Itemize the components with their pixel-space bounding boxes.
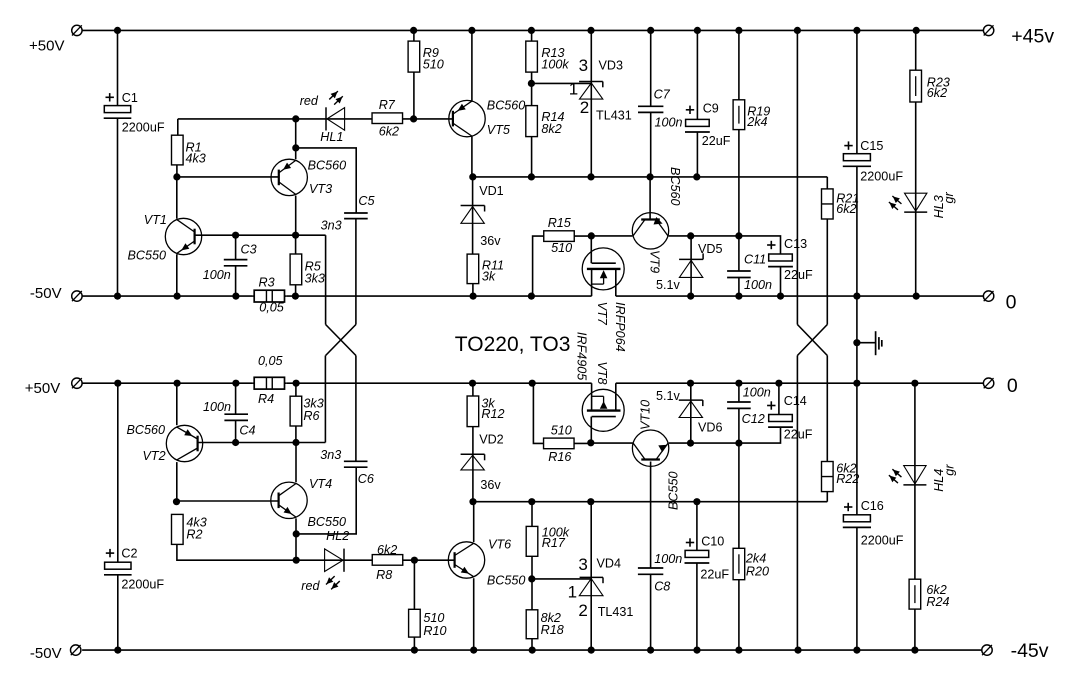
wire VT4 emitter [295,518,297,560]
svg-text:-45v: -45v [1011,640,1049,662]
junction R15 source rail [528,293,535,300]
transistor VT4 (BC550) [271,482,307,518]
capacitor C6 [344,461,368,467]
resistor R18 [526,610,538,639]
svg-text:red: red [300,94,319,108]
zener VD2 (36v) [461,454,485,470]
junction crossover column top rail [794,27,801,34]
resistor R15 [544,231,575,242]
transistor VT9 (BC560) [632,213,668,249]
wire VT10 collector to gate node [591,442,632,444]
junction C7 top [647,27,654,34]
junction VD4 pin2 rail [588,647,595,654]
zener VD6 (5.1v) [679,400,703,417]
svg-text:-50V: -50V [30,645,62,662]
svg-text:100n: 100n [743,386,771,400]
resistor R24 [909,579,921,609]
junction R16 source rail [529,380,536,387]
wire R12 column [472,383,474,502]
wire VT5 collector [471,136,473,177]
wire gate line (top half) [473,176,828,178]
svg-text:BC550: BC550 [308,515,347,529]
wire R11 to rail [472,284,474,297]
svg-text:+50V: +50V [25,380,60,397]
junction VT2 collector/R2 [173,498,180,505]
wire VD1 column [472,177,474,254]
svg-text:5.1v: 5.1v [656,389,681,403]
svg-text:3: 3 [579,56,588,75]
resistor R11 [467,254,479,284]
MOSFET VT8 (IRF4905) [582,383,624,431]
junction VD5 bottom [687,293,694,300]
wire left crossover to VT2 base node [324,356,326,443]
svg-text:VT9: VT9 [647,250,661,273]
wire R13 column [531,30,533,83]
svg-text:R15: R15 [548,216,572,230]
svg-text:2200uF: 2200uF [121,578,164,592]
TL431 VD4 [532,502,603,650]
junction R20 bottom [735,647,742,654]
terminal 0 (top half) [983,291,993,301]
junction VT6 collector gate line [469,498,476,505]
wire -50V / 0 rail (top half) [82,295,983,297]
svg-text:BC550: BC550 [667,471,681,510]
junction C16 bottom [853,647,860,654]
junction R13 top [528,27,535,34]
svg-text:C9: C9 [703,101,719,115]
junction C5 tap [292,144,299,151]
capacitor C14 [768,415,793,428]
resistor R19 [733,100,745,130]
junction C11 top [735,232,742,239]
svg-text:6k2: 6k2 [377,543,397,557]
resistor R21 [822,189,834,219]
junction 0 rail bottom half [853,380,860,387]
svg-text:6k2: 6k2 [927,86,947,100]
wire -50V / -45v bottom rail [82,649,982,651]
resistor R20 [733,548,745,579]
junction VT3 collector node [292,232,299,239]
junction ground tap [853,339,860,346]
svg-text:6k2: 6k2 [379,124,399,138]
resistor R13 [526,41,538,72]
wire VT10 emitter to VD6 [669,442,691,444]
junction VT8 gate node [587,439,594,446]
svg-text:2: 2 [580,98,589,117]
svg-text:IRF4905: IRF4905 [575,332,589,381]
transistor VT2 (BC560) [166,425,202,461]
wire C7 column [650,30,652,177]
junction R5 bottom [292,293,299,300]
wire VT3 collector [295,196,297,236]
svg-text:R3: R3 [259,276,275,290]
wire R16 left leg [533,383,543,443]
svg-text:R4: R4 [258,392,274,406]
svg-text:100n: 100n [203,268,231,282]
resistor R22 [822,462,834,492]
junction VD6 top [687,380,694,387]
svg-text:R17: R17 [542,536,566,550]
svg-text:0,05: 0,05 [259,301,285,315]
crossover X right [797,325,827,356]
junction VT4 collector node [292,439,299,446]
junction R6 top [293,380,300,387]
wire R1 column [176,119,179,177]
svg-text:3n3: 3n3 [321,218,342,232]
svg-text:2200uF: 2200uF [122,121,165,135]
junction C1 top rail [114,27,121,34]
svg-text:100n: 100n [203,400,231,414]
svg-text:+45v: +45v [1011,25,1054,47]
svg-text:510: 510 [551,241,572,255]
junction C14 top [775,380,782,387]
wire R20 column [738,443,740,650]
svg-text:R12: R12 [481,407,504,421]
resistor R9 [408,41,420,72]
svg-text:3n3: 3n3 [320,448,341,462]
wire HL1 drive line y119 [178,118,372,120]
wire +50V / 0 rail (bottom half) [82,382,983,384]
svg-text:TL431: TL431 [596,108,632,122]
junction HL2 anode node [293,557,300,564]
svg-text:36v: 36v [480,478,501,492]
junction R19 top [735,27,742,34]
wire R2 bottom corner [177,544,373,560]
junction C9 top [694,27,701,34]
junction C6 tap [293,530,300,537]
resistor R17 [526,526,538,556]
svg-text:BC560: BC560 [487,98,526,112]
terminal +50V (left, bottom half) [72,378,82,388]
svg-text:R22: R22 [836,472,859,486]
wire R16 to gate node [574,442,591,444]
wire VT9 collector to gate node [591,235,632,237]
junction C10 bottom [693,647,700,654]
svg-text:HL1: HL1 [320,130,343,144]
svg-text:VT7: VT7 [595,302,609,326]
capacitor C9 [685,119,710,132]
capacitor C11 [727,271,751,278]
wire VD5 column [690,236,692,296]
svg-text:VT3: VT3 [309,182,332,196]
wire VT7 gate [590,236,592,263]
resistor R10 [409,609,421,637]
junction R11 rail [470,293,477,300]
svg-text:510: 510 [551,424,572,438]
svg-text:510: 510 [423,57,444,71]
TL431 VD3 [531,30,602,177]
junction C3 bottom [232,293,239,300]
capacitor C3 [224,260,248,266]
wire R2 column top / VT2 collector [176,462,178,502]
LED HL1 (red) [326,107,345,130]
svg-text:C16: C16 [861,499,884,513]
junction HL3 bottom [913,293,920,300]
svg-text:C6: C6 [358,472,374,486]
junction VT5 collector gate line [469,173,476,180]
capacitor C2 [104,562,132,575]
wire VT4 base link [177,500,279,502]
junction VT2 emitter rail [174,380,181,387]
junction VD3 pin3 rail [587,27,594,34]
wire C11 column [738,236,740,296]
wire C13 to rail [780,267,782,297]
wire R6 column [295,383,297,442]
terminal +45v [983,25,993,35]
junction C4 bottom [232,439,239,446]
wire VD6 column [690,383,692,443]
svg-text:-50V: -50V [30,285,62,302]
terminal 0 (bottom half) [983,378,993,388]
HL2 emission arrows [326,576,340,589]
wire C10 column [696,502,698,650]
capacitor C16 [843,515,871,528]
wire VT1 collector [176,177,178,219]
svg-text:R7: R7 [379,98,396,112]
svg-text:VT10: VT10 [639,400,653,430]
wire R22 bottom corner [826,492,828,502]
wire C4 column [235,383,237,442]
wire R5 column [295,235,297,296]
wire R15 to gate node [574,235,591,237]
wire C15 column [856,30,858,383]
junction C12 bottom [735,440,742,447]
wire crossover left column (from VT3 node) [325,235,327,324]
junction C7/VT9 base [647,173,654,180]
svg-text:36v: 36v [480,234,501,248]
svg-text:VT5: VT5 [487,123,511,137]
svg-text:C5: C5 [358,194,375,208]
wire VT2 emitter [176,383,178,425]
resistor R4 (shunt 0,05) [252,377,287,389]
label VD4 pins [568,555,588,620]
crossover X left [326,325,356,356]
junction R14 gate line [528,173,535,180]
HL4 emission arrows [889,469,902,483]
capacitor C4 [224,414,248,420]
wire C8 column [650,502,652,650]
wire C6 to crossover [355,356,357,462]
wire right crossover to bottom rail [796,356,798,651]
wire C5 link [296,148,356,213]
capacitor C15 [843,154,871,167]
svg-text:22uF: 22uF [784,268,813,282]
junction C15 top [853,27,860,34]
junction VD4 pin3 gate line [587,498,594,505]
resistor R3 (shunt 0,05) [252,290,287,302]
svg-text:C1: C1 [122,91,138,105]
LED HL3 (green) [904,193,927,212]
junction C9 gate line [693,173,700,180]
resistor R1 [172,135,184,165]
svg-text:510: 510 [423,611,444,625]
svg-text:VT1: VT1 [144,213,167,227]
wire R19 column [738,30,740,236]
svg-text:VT8: VT8 [595,361,609,384]
svg-text:gr: gr [943,464,957,476]
svg-text:VD4: VD4 [597,557,622,571]
junction HL4 top [911,380,918,387]
junction R10 bottom [411,647,418,654]
junction VT6 emitter rail [470,647,477,654]
resistor R2 [172,514,184,544]
svg-text:red: red [301,579,320,593]
wire HL4 column top [914,383,916,579]
wire R14 column [531,83,533,176]
svg-text:BC560: BC560 [668,167,682,206]
wire R18 column [531,579,533,650]
svg-text:2200uF: 2200uF [861,534,904,548]
wire VT10 base [650,462,652,502]
junction C2 top [114,380,121,387]
svg-text:gr: gr [942,191,956,203]
junction R23 top [913,27,920,34]
svg-text:VD6: VD6 [698,420,723,434]
wire R23 column [915,30,917,296]
capacitor C7 [638,106,663,112]
wire VT2 base node y442.5 [198,442,325,444]
svg-text:3k: 3k [482,269,496,283]
svg-text:VD3: VD3 [599,59,624,73]
junction crossover bottom rail [794,647,801,654]
svg-text:VD2: VD2 [479,432,504,446]
terminal -50V (bottom left) [71,645,81,655]
resistor R16 [544,438,575,449]
wire VT1 emitter [176,254,178,296]
junction HL1 cathode node [292,115,299,122]
label VD3 pins [569,56,590,117]
LED HL4 (green) [903,466,926,485]
svg-text:R6: R6 [303,409,319,423]
resistor R8 [372,555,403,566]
ground [857,331,882,355]
HL3 emission arrows [889,196,902,210]
capacitor C12 [727,402,751,408]
junction R1/VT1 collector [173,173,180,180]
svg-text:8k2: 8k2 [541,122,561,136]
svg-text:BC560: BC560 [308,159,347,173]
capacitor C10 [685,550,710,563]
junction VT1 emitter rail [174,293,181,300]
wire VT6 collector [473,502,475,542]
svg-text:C8: C8 [654,580,670,594]
junction C1 bottom rail [114,293,121,300]
svg-text:100n: 100n [654,552,682,566]
wire C3 column [235,235,237,296]
svg-text:R8: R8 [376,568,392,582]
wire VT5 emitter [471,30,473,100]
svg-text:0: 0 [1007,375,1018,397]
wire C9 column [696,30,698,177]
junction VT7 gate node [588,232,595,239]
terminal -50V (left, top half) [72,291,82,301]
junction C11 bottom [735,293,742,300]
capacitor C5 [344,213,368,219]
wire VT4 collector [295,443,297,483]
junction C10 top [693,498,700,505]
wire VT1 collector/base node y177 [177,176,279,178]
svg-text:0: 0 [1006,291,1017,313]
resistor R6 [290,396,302,426]
svg-text:100n: 100n [744,278,772,292]
svg-text:22uF: 22uF [784,428,813,442]
wire R21 to crossover [826,219,828,325]
junction R18 bottom [529,647,536,654]
resistor R14 [526,106,538,137]
svg-text:R10: R10 [423,624,446,638]
svg-text:1: 1 [568,583,577,602]
wire R24 to rail [914,609,916,650]
wire C12 column [738,383,740,443]
wire C2 column [117,383,119,650]
svg-text:BC550: BC550 [487,574,526,588]
transistor VT1 (BC550) [165,218,201,254]
transistor VT6 (BC550) [448,542,484,578]
svg-text:IRFP064: IRFP064 [613,302,627,352]
capacitor C1 [104,106,132,119]
junction C4 top [232,380,239,387]
svg-text:VT2: VT2 [143,449,166,463]
HL1 emission arrows [329,91,343,105]
junction R13/R14 divider [528,80,535,87]
svg-text:VD5: VD5 [698,242,723,256]
svg-text:C10: C10 [701,535,724,549]
svg-text:3: 3 [578,555,587,574]
junction C13 bottom [777,293,784,300]
svg-text:4k3: 4k3 [186,152,206,166]
wire VT8 gate [590,417,592,443]
svg-text:C4: C4 [239,424,255,438]
svg-text:6k2: 6k2 [836,202,856,216]
svg-text:2200uF: 2200uF [860,169,903,183]
wire R8 to VT6 [403,559,455,561]
LED HL2 (red) [325,549,344,572]
wire VT3 emitter [295,119,297,159]
junction R17/R18 divider [528,575,535,582]
wire C16 column [856,383,858,650]
svg-text:VT6: VT6 [488,537,511,551]
svg-text:5.1v: 5.1v [656,278,681,292]
resistor R23 [910,70,922,102]
svg-text:100k: 100k [541,57,569,71]
junction R12 top [469,380,476,387]
junction R24 bottom [911,647,918,654]
junction VD6 bottom [687,440,694,447]
svg-text:C14: C14 [784,394,807,408]
zener VD1 (36v) [461,206,485,224]
svg-text:C3: C3 [241,242,257,256]
wire R10 column [413,560,415,650]
svg-text:C13: C13 [784,237,807,251]
wire R7 to VT5 [403,118,453,120]
svg-text:C11: C11 [744,253,766,267]
wire +50V top rail [82,29,983,31]
capacitor C13 [768,254,793,267]
svg-text:TL431: TL431 [598,605,634,619]
svg-text:22uF: 22uF [702,134,731,148]
svg-text:3k3: 3k3 [305,271,325,285]
wire VT6 emitter [473,578,475,650]
svg-text:R16: R16 [548,450,571,464]
zener VD5 (5.1v) [679,253,703,277]
wire R21 top [826,177,828,189]
wire C14 column [691,383,781,443]
junction C8 bottom [647,647,654,654]
wire crossover right column from +45v rail [796,30,798,324]
wire gate line (bottom half) [473,501,827,503]
transistor VT3 (BC560) [271,159,307,195]
svg-text:C2: C2 [121,546,137,560]
